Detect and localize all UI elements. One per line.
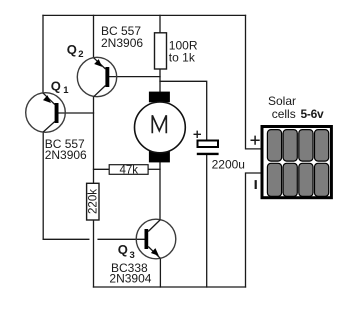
polarity - terminal of solar panel — [255, 180, 257, 189]
wire: branch to capacitor + — [160, 81, 207, 140]
value label BC338 / 2N3904 for Q3 — [109, 261, 151, 286]
transistor Q2 (BC557 PNP) — [77, 57, 116, 96]
svg-text:Q: Q — [51, 79, 61, 94]
svg-text:2N3904: 2N3904 — [109, 272, 151, 286]
svg-text:5-6v: 5-6v — [301, 107, 324, 121]
svg-text:220k: 220k — [87, 189, 99, 214]
wire: Q1 collector drop — [42, 132, 44, 239]
wire: 100R bottom to motor + — [159, 69, 161, 93]
wire: Q3 emitter to 0v rail — [159, 259, 161, 288]
solar panel BT1 (frame) — [262, 127, 331, 198]
svg-text:2200u: 2200u — [212, 157, 245, 171]
wire: rail drop to Q2 emitter — [93, 15, 95, 57]
transistor Q3 (BC338 NPN) — [136, 219, 176, 259]
svg-text:2N3906: 2N3906 — [101, 36, 143, 50]
svg-text:cells: cells — [272, 107, 296, 121]
wire: Q2 collector down to 220k — [93, 97, 95, 184]
svg-text:2: 2 — [78, 49, 83, 60]
wire: capacitor - down to 0v rail — [206, 155, 208, 287]
value label BC 557 / 2N3906 for Q2 — [101, 24, 143, 50]
svg-text:2N3906: 2N3906 — [45, 148, 87, 162]
label Solar cells 5-6v — [268, 94, 324, 121]
wire: bottom 0v rail — [94, 286, 246, 288]
label Q1 — [51, 79, 70, 96]
wire: left drop to Q1 emitter — [42, 15, 44, 93]
capacitor C1 2200u electrolytic — [197, 141, 219, 154]
wire: Q3 base line left segment — [43, 238, 89, 240]
wire: motor - down to Q3 collector — [159, 162, 161, 220]
value label 100R to 1k — [169, 39, 198, 65]
wire: solar - terminal to 0v rail — [246, 173, 262, 287]
svg-text:Q: Q — [118, 242, 128, 257]
wire: right drop to solar + terminal — [246, 15, 262, 149]
wire: 220k bottom to 0v rail — [93, 220, 95, 287]
wire: Q1 base lead — [59, 112, 94, 114]
resistor R2 47k (body) — [109, 165, 148, 175]
wire: Q3 base line right segment (crossover gap) — [98, 238, 144, 240]
transistor Q1 (BC557 PNP) — [26, 93, 66, 133]
motor M1 — [135, 92, 186, 163]
wire: 47k right lead — [148, 168, 160, 170]
svg-text:Q: Q — [67, 42, 77, 57]
svg-text:1: 1 — [63, 85, 69, 96]
wire: Q2 base lead to motor node — [109, 76, 160, 78]
svg-text:47k: 47k — [120, 164, 139, 176]
resistor R3 220k (body) — [87, 183, 99, 220]
polarity + of C1 — [194, 131, 202, 138]
label Q2 — [67, 42, 84, 60]
resistor R1 100R (body) — [155, 33, 167, 69]
polarity + terminal of solar panel — [251, 136, 260, 145]
label Q3 — [118, 242, 135, 261]
svg-text:Solar: Solar — [268, 94, 296, 108]
value label BC 557 / 2N3906 for Q1 — [45, 137, 87, 162]
solar panel cells — [267, 130, 328, 197]
wire: positive top rail — [43, 14, 246, 16]
wire: 47k left lead — [94, 168, 110, 170]
svg-text:3: 3 — [130, 250, 135, 261]
svg-text:to 1k: to 1k — [169, 50, 196, 64]
wire: rail to 100R top — [159, 15, 161, 32]
